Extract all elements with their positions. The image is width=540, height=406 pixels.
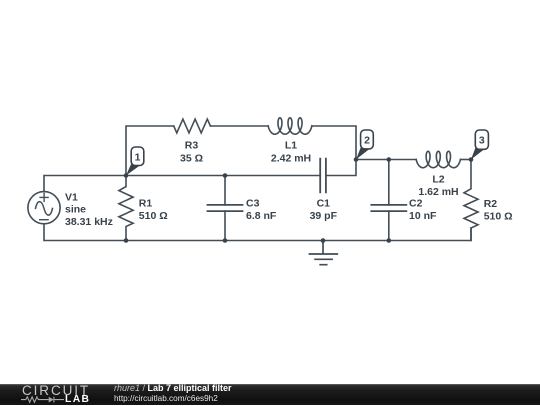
junction R1 bottom (124, 238, 129, 243)
wire: L2 to node 3 (460, 159, 471, 161)
node 3 flag (471, 130, 488, 160)
logo doodle: resistor + diode (20, 395, 65, 405)
svg-text:L1: L1 (285, 140, 297, 152)
resistor R2 (464, 160, 478, 241)
voltage source V1 circle (28, 192, 60, 224)
svg-text:3: 3 (479, 135, 485, 147)
resistor R3 (174, 119, 211, 133)
wire: left vertical up to top rail (126, 126, 174, 176)
resistor R1 (119, 176, 133, 241)
wire: bottom rail (44, 224, 471, 241)
svg-text:2: 2 (364, 135, 370, 147)
svg-text:510 Ω: 510 Ω (484, 210, 513, 222)
svg-text:sine: sine (65, 204, 86, 216)
inductor L1 (268, 118, 312, 134)
node 1 flag (126, 147, 144, 176)
footer title (114, 383, 232, 393)
junction C2 top (387, 157, 392, 162)
junction C3 top (223, 173, 228, 178)
footer url (114, 394, 218, 403)
svg-text:6.8 nF: 6.8 nF (246, 210, 277, 222)
svg-text:R2: R2 (484, 198, 498, 210)
ground symbol (309, 241, 337, 265)
wire: R3 to L1 (210, 125, 268, 127)
svg-text:35 Ω: 35 Ω (180, 152, 203, 164)
wire: L1 to node 2 corner (312, 126, 356, 160)
capacitor C3 (224, 176, 226, 241)
wire: mid rail node1 to C1 (126, 175, 320, 177)
svg-text:C1: C1 (317, 197, 331, 209)
junction node3 (469, 157, 474, 162)
wire: V1 top lead to node 1 (44, 176, 126, 192)
svg-text:10 nF: 10 nF (409, 210, 437, 222)
svg-text:V1: V1 (65, 191, 78, 203)
node 2 flag (356, 130, 373, 160)
svg-text:2.42 mH: 2.42 mH (271, 152, 311, 164)
V1 plus sign (40, 193, 48, 201)
junction node1 (124, 173, 129, 178)
junction node2 (354, 157, 359, 162)
inductor L2 (416, 151, 460, 167)
wire: node2 to node3 rail (356, 159, 416, 161)
svg-text:C3: C3 (246, 197, 260, 209)
svg-text:1.62 mH: 1.62 mH (418, 186, 458, 198)
junction C3 bottom (223, 238, 228, 243)
junction ground (321, 238, 326, 243)
svg-text:38.31 kHz: 38.31 kHz (65, 216, 113, 228)
svg-text:L2: L2 (432, 173, 444, 185)
svg-text:39 pF: 39 pF (310, 210, 338, 222)
svg-text:C2: C2 (409, 198, 423, 210)
capacitor C1 (320, 159, 326, 193)
svg-text:R1: R1 (139, 197, 153, 209)
V1 sine wave (36, 202, 53, 216)
svg-text:1: 1 (135, 151, 141, 163)
junction C2 bottom (387, 238, 392, 243)
CircuitLab logo text (22, 384, 90, 398)
wire: C1 to node 2 (326, 160, 356, 176)
svg-text:R3: R3 (185, 140, 199, 152)
capacitor C2 (388, 160, 390, 241)
footer bar (0, 384, 540, 405)
V1 minus sign (40, 219, 48, 221)
svg-text:510 Ω: 510 Ω (139, 210, 168, 222)
